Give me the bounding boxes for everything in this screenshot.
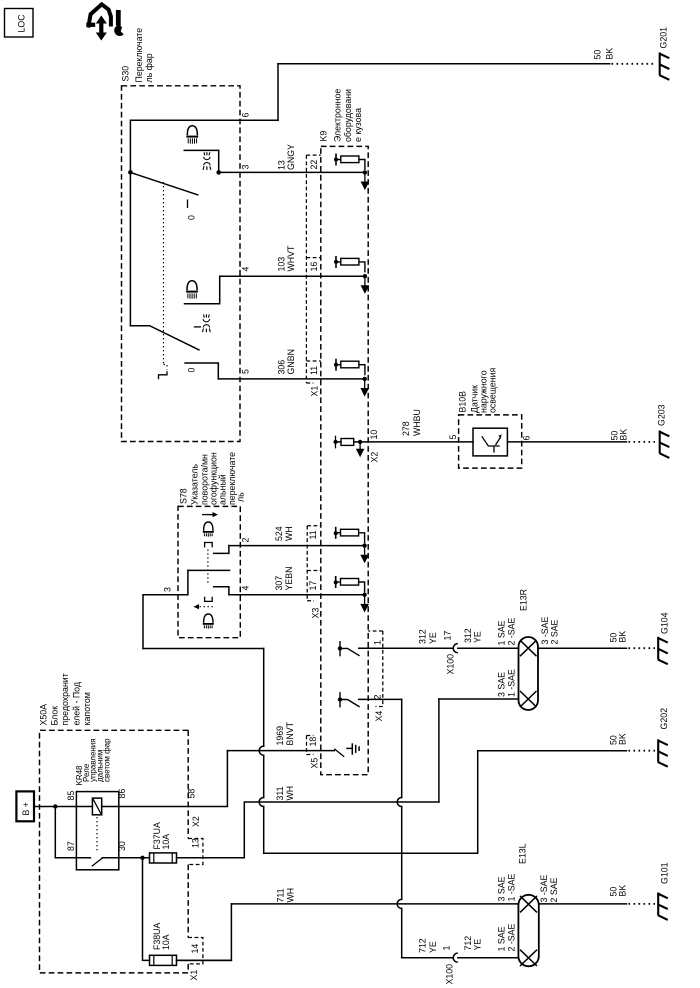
svg-text:WHVT: WHVT — [286, 245, 296, 272]
svg-text:17: 17 — [308, 581, 318, 591]
svg-text:BK: BK — [618, 885, 628, 897]
svg-text:0: 0 — [187, 368, 197, 373]
svg-text:капотом: капотом — [82, 692, 92, 725]
svg-text:13: 13 — [277, 160, 287, 170]
svg-text:30: 30 — [117, 841, 127, 851]
svg-text:YE: YE — [473, 631, 483, 643]
svg-text:10: 10 — [369, 430, 379, 440]
svg-text:10A: 10A — [161, 934, 171, 950]
svg-text:освещения: освещения — [488, 367, 498, 413]
svg-text:3 -SAE: 3 -SAE — [540, 616, 550, 644]
svg-text:BK: BK — [618, 733, 628, 745]
svg-text:B10B: B10B — [458, 391, 468, 413]
svg-text:YE: YE — [473, 939, 483, 951]
svg-text:ль фар: ль фар — [144, 53, 154, 82]
svg-text:1 -SAE: 1 -SAE — [507, 873, 517, 901]
svg-text:E13L: E13L — [518, 843, 528, 864]
svg-text:GNGY: GNGY — [286, 144, 296, 170]
svg-text:BK: BK — [605, 48, 615, 60]
svg-text:311: 311 — [275, 786, 285, 800]
svg-text:YEBN: YEBN — [284, 567, 294, 591]
svg-text:2: 2 — [240, 538, 250, 543]
svg-text:6: 6 — [241, 113, 251, 118]
svg-text:278: 278 — [401, 421, 411, 436]
svg-text:X100: X100 — [446, 654, 456, 675]
svg-text:X2: X2 — [370, 452, 380, 463]
svg-text:E13R: E13R — [519, 589, 529, 611]
svg-text:18: 18 — [308, 737, 318, 747]
svg-text:85: 85 — [66, 791, 76, 801]
svg-text:GNBN: GNBN — [286, 349, 296, 374]
svg-text:BK: BK — [619, 429, 629, 441]
svg-text:0: 0 — [187, 215, 197, 220]
svg-text:предохранит: предохранит — [60, 673, 70, 725]
svg-text:WH: WH — [284, 526, 294, 541]
svg-text:X1: X1 — [189, 970, 199, 981]
svg-text:G203: G203 — [657, 404, 667, 426]
svg-text:58: 58 — [187, 789, 197, 799]
svg-text:307: 307 — [274, 576, 284, 591]
svg-text:3 -SAE: 3 -SAE — [539, 874, 549, 902]
svg-text:X3: X3 — [311, 608, 321, 619]
svg-text:524: 524 — [274, 526, 284, 541]
svg-text:16: 16 — [309, 262, 319, 272]
svg-text:G201: G201 — [658, 27, 668, 49]
svg-text:17: 17 — [442, 631, 452, 641]
svg-text:оборудовани: оборудовани — [343, 89, 353, 142]
svg-text:712: 712 — [418, 938, 428, 953]
svg-text:X4: X4 — [374, 711, 384, 722]
svg-text:50: 50 — [592, 50, 602, 60]
svg-text:2 SAE: 2 SAE — [549, 877, 559, 902]
svg-text:ль: ль — [236, 492, 246, 502]
svg-text:103: 103 — [277, 257, 287, 272]
svg-text:K9: K9 — [319, 131, 329, 142]
svg-text:BK: BK — [618, 631, 628, 643]
svg-text:LOC: LOC — [17, 14, 27, 33]
svg-text:G202: G202 — [659, 708, 669, 730]
svg-text:3: 3 — [241, 165, 251, 170]
svg-text:1969: 1969 — [275, 726, 285, 746]
svg-text:4: 4 — [241, 267, 251, 272]
svg-text:2 SAE: 2 SAE — [550, 619, 560, 644]
svg-text:11: 11 — [308, 530, 318, 539]
svg-text:13: 13 — [191, 838, 201, 848]
svg-text:2 -SAE: 2 -SAE — [507, 923, 517, 951]
svg-text:1: 1 — [442, 946, 452, 951]
svg-text:WHBU: WHBU — [412, 409, 422, 436]
svg-text:G104: G104 — [659, 612, 669, 634]
svg-text:10A: 10A — [161, 834, 171, 850]
svg-text:22: 22 — [309, 160, 319, 170]
svg-text:14: 14 — [190, 944, 200, 954]
svg-text:S78: S78 — [179, 488, 189, 504]
svg-text:WH: WH — [286, 888, 296, 903]
svg-text:711: 711 — [276, 888, 286, 902]
svg-text:4: 4 — [240, 586, 250, 591]
svg-text:G101: G101 — [660, 862, 670, 884]
svg-text:1 -SAE: 1 -SAE — [507, 669, 517, 697]
svg-text:87: 87 — [66, 841, 76, 851]
svg-text:WH: WH — [285, 786, 295, 801]
svg-text:S30: S30 — [121, 66, 131, 82]
svg-text:712: 712 — [463, 936, 473, 951]
svg-text:Блок: Блок — [50, 706, 60, 726]
svg-text:BNVT: BNVT — [285, 721, 295, 745]
svg-text:306: 306 — [277, 360, 287, 375]
svg-text:312: 312 — [418, 629, 428, 644]
svg-text:3 SAE: 3 SAE — [497, 672, 507, 697]
svg-text:е кузова: е кузова — [353, 108, 363, 142]
svg-text:6: 6 — [522, 436, 532, 441]
svg-text:1 SAE: 1 SAE — [497, 926, 507, 951]
svg-text:1: 1 — [373, 640, 383, 645]
svg-text:5: 5 — [241, 369, 251, 374]
svg-text:3 SAE: 3 SAE — [497, 876, 507, 901]
svg-text:YE: YE — [428, 632, 438, 644]
svg-text:X100: X100 — [445, 964, 455, 985]
svg-text:Указатель: Указатель — [190, 464, 200, 505]
svg-text:3: 3 — [163, 587, 173, 592]
svg-text:2 -SAE: 2 -SAE — [507, 617, 517, 645]
svg-text:5: 5 — [448, 435, 458, 440]
svg-text:X5: X5 — [310, 758, 320, 769]
svg-text:светом фар: светом фар — [103, 738, 112, 782]
svg-text:11: 11 — [309, 366, 319, 375]
svg-text:YE: YE — [428, 941, 438, 953]
svg-text:1 SAE: 1 SAE — [497, 620, 507, 645]
svg-text:X50A: X50A — [38, 704, 48, 726]
svg-text:86: 86 — [117, 789, 127, 799]
svg-text:312: 312 — [463, 628, 473, 643]
svg-text:X1: X1 — [310, 386, 320, 397]
svg-text:X2: X2 — [191, 816, 201, 827]
svg-text:Электронное: Электронное — [333, 89, 343, 142]
svg-text:Переключате: Переключате — [134, 28, 144, 83]
svg-text:B +: B + — [21, 802, 31, 815]
svg-text:елей - Под: елей - Под — [71, 682, 81, 726]
